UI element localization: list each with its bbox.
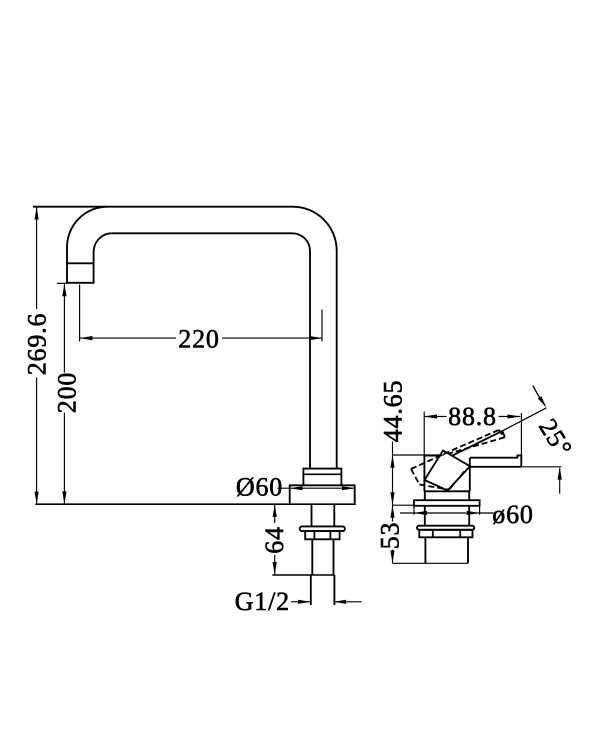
svg-text:25°: 25°	[533, 414, 578, 462]
svg-text:Ø60: Ø60	[236, 473, 283, 502]
svg-text:88.8: 88.8	[448, 402, 497, 431]
svg-text:G1/2: G1/2	[235, 587, 290, 616]
svg-text:64: 64	[260, 526, 289, 554]
svg-text:220: 220	[178, 325, 219, 354]
svg-text:ø60: ø60	[492, 500, 533, 529]
svg-text:269.6: 269.6	[23, 313, 52, 376]
svg-text:53: 53	[376, 522, 405, 550]
svg-text:200: 200	[52, 372, 81, 413]
svg-text:44.65: 44.65	[379, 380, 408, 443]
